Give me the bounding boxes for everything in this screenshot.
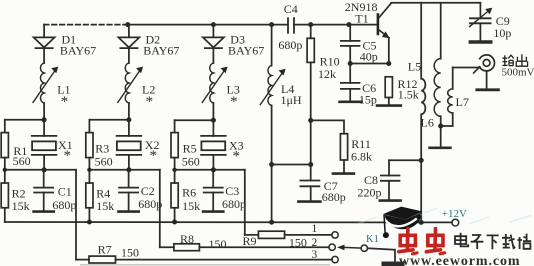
ground output xyxy=(477,88,499,91)
label output 输出 500mV xyxy=(502,67,534,79)
svg-text:560: 560 xyxy=(13,154,31,168)
node emitter/R12 xyxy=(386,61,391,66)
wire S2 tap down to R8 xyxy=(159,170,161,247)
resistor R4 xyxy=(86,170,114,222)
crystal X2 xyxy=(117,120,160,170)
inductor L5 (on feed line) + wire long vertical to +12V xyxy=(421,3,425,223)
wire section2 top rail xyxy=(89,119,128,121)
node C8 tap xyxy=(419,158,424,163)
wire section1 top rail xyxy=(5,119,44,121)
capacitor C4 xyxy=(278,2,377,52)
resistor R12 xyxy=(385,77,419,105)
wire section3 top rail xyxy=(175,119,214,121)
node top junction D3 xyxy=(211,22,216,27)
svg-text:3: 3 xyxy=(312,249,318,261)
svg-text:+12V: +12V xyxy=(442,208,467,220)
node C7 top / L4 wire xyxy=(308,162,313,167)
node R4 bus xyxy=(87,220,92,225)
diode D2 xyxy=(118,25,179,63)
svg-text:150: 150 xyxy=(289,235,307,249)
svg-text:1μH: 1μH xyxy=(281,93,302,107)
wire L7 to output xyxy=(453,67,479,69)
node X2 bottom xyxy=(126,167,131,172)
resistor R11 xyxy=(340,134,372,173)
inductor L1 (variable) xyxy=(33,63,71,120)
diode D3 xyxy=(203,25,264,63)
resistor R9 xyxy=(243,231,332,249)
ground switch pole xyxy=(384,261,402,266)
resistor R1 xyxy=(1,120,30,170)
svg-text:15p: 15p xyxy=(359,92,377,106)
svg-text:680p: 680p xyxy=(322,190,346,204)
capacitor C3 xyxy=(203,170,246,212)
svg-text:L7: L7 xyxy=(456,95,469,109)
svg-text:T1: T1 xyxy=(355,12,368,26)
node top junction D2 xyxy=(125,22,130,27)
svg-text:1: 1 xyxy=(312,223,318,235)
svg-text:*: * xyxy=(61,94,69,110)
node L3 / section3 xyxy=(211,118,216,123)
ground C7 xyxy=(298,200,320,203)
svg-text:220p: 220p xyxy=(358,185,382,199)
capacitor C1 xyxy=(34,170,77,212)
inductor L6 coil xyxy=(408,3,441,147)
output connector xyxy=(474,55,495,89)
scan ghost line xyxy=(80,264,330,266)
svg-text:15k: 15k xyxy=(96,199,114,213)
node R10/R11 xyxy=(308,118,313,123)
svg-text:2: 2 xyxy=(312,237,318,249)
switch K1 pole xyxy=(361,245,367,251)
node C5/C6 emitter wire left xyxy=(348,61,353,66)
svg-text:150: 150 xyxy=(121,246,139,260)
watermark graduation cap xyxy=(383,207,423,239)
svg-text:BAY67: BAY67 xyxy=(228,44,264,58)
ground C8 xyxy=(380,199,401,202)
resistor R7 xyxy=(76,243,332,263)
svg-text:*: * xyxy=(233,149,241,165)
wire R10 to R11 xyxy=(311,120,344,133)
node L4 bus xyxy=(269,220,274,225)
inductor L3 (variable) xyxy=(202,63,240,120)
node X3 bottom xyxy=(211,167,216,172)
svg-text:680p: 680p xyxy=(138,197,162,211)
svg-text:www.eeworm.com: www.eeworm.com xyxy=(399,254,520,266)
ground R11 xyxy=(333,172,354,175)
node L2 / section2 xyxy=(126,117,131,122)
svg-text:K1: K1 xyxy=(366,234,379,245)
label 输出 (drawn strokes) xyxy=(502,54,527,66)
capacitor C5 xyxy=(341,25,378,64)
svg-text:40p: 40p xyxy=(360,50,378,64)
wire pole to ground xyxy=(368,248,396,261)
ground L6 xyxy=(430,147,451,150)
svg-text:R9: R9 xyxy=(243,234,257,248)
svg-text:C2: C2 xyxy=(141,184,155,198)
ground C9 xyxy=(470,40,491,43)
svg-text:*: * xyxy=(64,148,72,164)
svg-text:*: * xyxy=(146,94,154,110)
svg-text:R5: R5 xyxy=(183,141,197,155)
inductor L4 (variable) xyxy=(260,25,302,223)
svg-text:680p: 680p xyxy=(278,38,302,52)
capacitor C7 xyxy=(300,165,345,205)
+12V terminal xyxy=(452,219,459,226)
ground C6 xyxy=(340,101,362,104)
wire section1 middle rail xyxy=(5,169,76,171)
wire collector top rail xyxy=(391,2,480,4)
node R10 top xyxy=(308,22,313,27)
svg-text:150: 150 xyxy=(209,237,227,251)
node X1 bottom xyxy=(42,167,47,172)
svg-text:R3: R3 xyxy=(95,141,109,155)
node L6/L7 bottom xyxy=(438,124,443,129)
svg-text:10p: 10p xyxy=(493,26,511,40)
wire L4 to C7 xyxy=(272,164,311,166)
wire section3 middle rail xyxy=(175,169,245,171)
inductor L7 secondary xyxy=(441,68,469,127)
resistor R10 xyxy=(307,25,340,165)
node C5 top xyxy=(346,22,351,27)
svg-text:C4: C4 xyxy=(284,2,298,16)
wire top bus solid to C4 xyxy=(128,24,288,26)
transistor T1 xyxy=(345,0,391,64)
svg-text:*: * xyxy=(150,148,158,164)
svg-text:R8: R8 xyxy=(180,232,194,246)
capacitor C6 xyxy=(341,64,377,107)
watermark 虫虫 (red) xyxy=(399,229,445,254)
crystal X3 xyxy=(201,120,244,170)
resistor R2 xyxy=(1,170,29,222)
switch K1 contact 3 xyxy=(332,256,338,262)
capacitor C9 (variable) xyxy=(470,3,512,41)
watermark 电子下载站 (drawn strokes) xyxy=(455,233,531,249)
svg-text:C3: C3 xyxy=(225,184,239,198)
wire emitter row xyxy=(350,63,389,65)
svg-text:L5: L5 xyxy=(408,59,421,73)
svg-text:15k: 15k xyxy=(12,199,30,213)
node R3/R4 xyxy=(87,168,91,172)
faint cyan watermark strokes xyxy=(357,208,532,224)
switch K1 contact 1 xyxy=(332,232,338,238)
svg-text:R6: R6 xyxy=(182,185,196,199)
inductor L2 (variable) xyxy=(118,63,156,120)
wire section2 middle rail xyxy=(89,169,159,171)
svg-text:1.5k: 1.5k xyxy=(398,88,419,102)
ground R12 xyxy=(377,104,401,107)
crystal X1 xyxy=(32,120,73,170)
capacitor C8 xyxy=(358,160,400,200)
svg-text:680p: 680p xyxy=(222,197,246,211)
svg-text:15k: 15k xyxy=(182,199,200,213)
resistor R8 xyxy=(160,232,329,251)
svg-text:BAY67: BAY67 xyxy=(143,44,179,58)
wire +12V bus bottom xyxy=(5,221,452,223)
svg-text:680p: 680p xyxy=(52,198,76,212)
capacitor C2 xyxy=(119,170,163,212)
wire C8 tap xyxy=(389,159,421,161)
svg-text:12k: 12k xyxy=(318,67,336,81)
switch K1 contact 2 xyxy=(329,244,335,250)
node C8 line bus xyxy=(419,220,424,225)
svg-text:6.8k: 6.8k xyxy=(351,149,372,163)
resistor R5 xyxy=(171,120,200,170)
wire dashed top bus segment xyxy=(44,24,128,26)
node R1/R2 xyxy=(3,168,7,172)
svg-text:BAY67: BAY67 xyxy=(60,44,96,58)
wire S3 tap down to R9 xyxy=(244,170,246,235)
node L1 / section1 xyxy=(42,117,47,122)
node R6 bus xyxy=(172,220,177,225)
svg-text:500mV: 500mV xyxy=(502,67,534,79)
wire S1 tap down to R7 xyxy=(75,170,77,260)
svg-text:R7: R7 xyxy=(98,243,112,257)
node top junction L4 xyxy=(269,22,274,27)
diode D1 xyxy=(34,25,97,63)
svg-text:560: 560 xyxy=(182,154,200,168)
svg-text:*: * xyxy=(230,94,238,110)
switch K1 arm wire xyxy=(337,245,361,251)
svg-text:C1: C1 xyxy=(58,184,72,198)
svg-text:L6: L6 xyxy=(421,116,434,130)
resistor R6 xyxy=(171,170,200,222)
node R5/R6 xyxy=(172,168,176,172)
svg-text:560: 560 xyxy=(95,154,113,168)
resistor R3 xyxy=(86,120,113,170)
